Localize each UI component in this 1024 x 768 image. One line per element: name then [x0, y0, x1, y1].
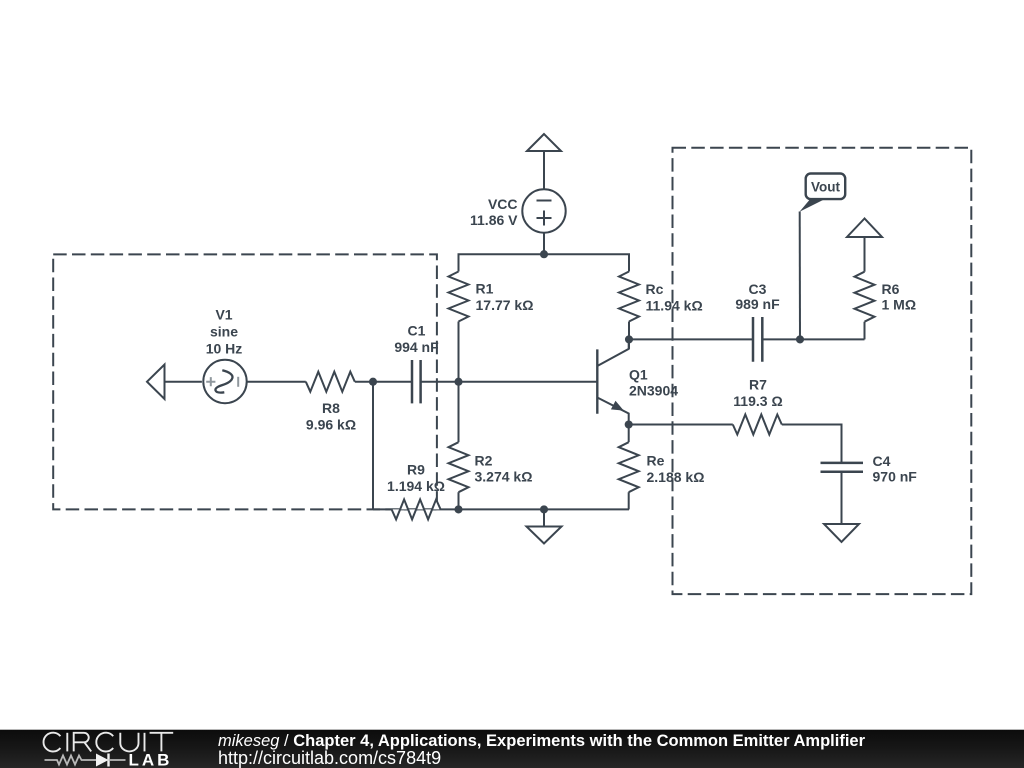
wire Re bottom lead [628, 492, 630, 509]
capacitor C3 [753, 317, 762, 362]
wire VCC terminal to source [543, 151, 545, 190]
wire Re top lead [628, 425, 630, 443]
wire top rail [459, 254, 630, 271]
voltage source V1 circle [203, 360, 246, 403]
svg-text:http://circuitlab.com/cs784t9: http://circuitlab.com/cs784t9 [218, 748, 441, 768]
voltage source VCC circle [522, 189, 565, 232]
resistor R8 [306, 372, 355, 392]
wire emitter node to R7 [629, 424, 733, 426]
VCC power terminal triangle [527, 134, 561, 151]
node dot R8/C1 junction [369, 378, 377, 386]
logo resistor zigzag [45, 756, 97, 765]
svg-text:C1: C1 [408, 323, 426, 339]
svg-text:17.77 kΩ: 17.77 kΩ [476, 297, 534, 313]
VCC plus sign [537, 211, 552, 226]
node dot Vout junction [796, 335, 804, 343]
transistor Q1 emitter stroke [597, 398, 628, 425]
svg-text:1 MΩ: 1 MΩ [882, 297, 917, 313]
wire C1 to base node [421, 381, 598, 383]
svg-text:V1: V1 [215, 307, 232, 323]
svg-text:3.274 kΩ: 3.274 kΩ [475, 469, 533, 485]
svg-text:119.3 Ω: 119.3 Ω [733, 393, 782, 409]
node dot VCC rail [540, 250, 548, 258]
Vout flag box [806, 174, 846, 200]
wire R1 bottom lead [458, 322, 460, 382]
svg-text:2N3904: 2N3904 [629, 383, 678, 399]
svg-text:989 nF: 989 nF [735, 296, 780, 312]
svg-text:994 nF: 994 nF [394, 339, 439, 355]
wire R2 bottom lead [458, 492, 460, 509]
transistor Q1 base bar [596, 349, 598, 413]
wire Rc bottom lead to collector node [628, 322, 630, 349]
svg-text:C3: C3 [749, 281, 767, 297]
capacitor C4 [821, 463, 864, 472]
power terminal triangle (R6 top) [847, 219, 882, 238]
V1 minus bar [237, 377, 239, 387]
logo diode [96, 754, 109, 767]
wire R2 top lead [458, 382, 460, 443]
wire VCC source to top rail [543, 233, 545, 255]
svg-text:C4: C4 [873, 453, 891, 469]
wire Vout node to R6 [800, 338, 865, 340]
svg-text:Vout: Vout [811, 180, 840, 195]
svg-text:Q1: Q1 [629, 367, 648, 383]
svg-text:R2: R2 [475, 453, 493, 469]
wire collector node to C3 [629, 338, 753, 340]
capacitor C1 [412, 360, 421, 403]
resistor Rc [619, 272, 639, 322]
svg-text:Rc: Rc [646, 281, 664, 297]
wire terminal to V1 [165, 381, 202, 383]
svg-text:VCC: VCC [488, 196, 518, 212]
V1 plus sign [206, 377, 215, 386]
node dot R2 bottom junction [454, 505, 462, 513]
svg-text:R7: R7 [749, 377, 767, 393]
svg-text:Re: Re [647, 453, 665, 469]
svg-text:11.86 V: 11.86 V [470, 212, 518, 228]
resistor Re [619, 442, 639, 492]
node dot ground junction [540, 505, 548, 513]
node dot collector junction [625, 335, 633, 343]
right dashed box (output group) [673, 148, 972, 594]
ground (C4) [824, 524, 859, 542]
resistor R6 [855, 272, 875, 322]
svg-text:1.194 kΩ: 1.194 kΩ [387, 478, 445, 494]
wire R7 to C4 [782, 425, 842, 463]
svg-text:9.96 kΩ: 9.96 kΩ [306, 417, 356, 433]
svg-text:R9: R9 [407, 462, 425, 478]
resistor R7 [733, 415, 782, 435]
ground (bottom rail) [543, 509, 545, 526]
VCC minus sign [537, 200, 552, 202]
wire node down to bottom rail [372, 382, 374, 510]
wire C4 to ground [841, 472, 843, 524]
wire C3 to Vout node [762, 338, 800, 340]
logo CIRCUIT lettering [44, 733, 174, 752]
svg-text:R8: R8 [322, 400, 340, 416]
wire Vout flag to node [799, 212, 801, 340]
wire R8 to C1 [355, 381, 412, 383]
resistor R1 [449, 272, 469, 322]
wire R6 top stem [864, 237, 866, 272]
V1 sine symbol [215, 370, 232, 392]
node dot base junction [454, 378, 462, 386]
svg-text:R1: R1 [476, 281, 494, 297]
left dashed box (input source group) [53, 254, 437, 509]
resistor R9 [392, 499, 441, 519]
resistor R2 [449, 442, 469, 492]
transistor Q1 collector stroke [597, 339, 628, 366]
wire bottom rail [373, 508, 629, 510]
transistor Q1 emitter arrow [611, 401, 624, 411]
svg-text:sine: sine [210, 324, 238, 340]
svg-text:970 nF: 970 nF [873, 469, 918, 485]
svg-text:2.188 kΩ: 2.188 kΩ [647, 469, 705, 485]
svg-text:11.94 kΩ: 11.94 kΩ [646, 298, 703, 314]
input terminal triangle (left) [147, 365, 165, 400]
svg-text:LAB: LAB [129, 751, 173, 768]
wire V1 to R8 [247, 381, 306, 383]
Vout flag pointer [800, 199, 825, 212]
svg-text:10 Hz: 10 Hz [206, 341, 243, 357]
wire R6 bottom lead [864, 322, 866, 340]
svg-text:R6: R6 [882, 281, 900, 297]
node dot emitter junction [625, 420, 633, 428]
